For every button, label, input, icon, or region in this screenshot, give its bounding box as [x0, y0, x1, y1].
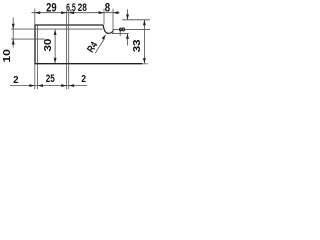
leader arrowhead — [102, 34, 107, 40]
arrow up — [54, 30, 57, 35]
arrow down to step top — [126, 14, 129, 19]
right shelf line — [114, 28, 150, 30]
R4 groove (fillet U at top right) — [103, 25, 113, 33]
groove bottom extension line — [112, 32, 129, 34]
dim line — [12, 18, 14, 48]
ext rib right — [68, 64, 70, 89]
left wall inner line — [37, 26, 39, 64]
arrow down to top line — [12, 24, 15, 29]
arrow up — [143, 20, 146, 25]
small vertical step line — [119, 29, 121, 36]
arrow down — [143, 58, 146, 63]
left wall outer edge — [34, 25, 36, 65]
arrow 6,5 right (outside) — [69, 11, 74, 14]
rib left line — [66, 26, 68, 64]
svg-text:30: 30 — [43, 38, 54, 51]
ext fillet left — [103, 9, 105, 25]
svg-text:8: 8 — [117, 27, 127, 32]
lower shaft — [127, 34, 129, 46]
svg-text:2: 2 — [13, 75, 19, 86]
ext line left wall — [34, 9, 36, 25]
ext rib up left — [66, 11, 68, 25]
top edge — [35, 24, 104, 26]
arrow 25 right — [61, 84, 66, 87]
bottom dim line — [10, 85, 87, 87]
arrow up to bottom line — [12, 39, 15, 44]
short left horizontal reference line — [11, 38, 45, 40]
arrow 25 left — [38, 84, 43, 87]
right step top line — [122, 19, 150, 21]
arrow 2 right (outside) — [69, 84, 74, 87]
dim line — [143, 20, 145, 64]
svg-text:29: 29 — [46, 3, 57, 15]
svg-text:8: 8 — [105, 1, 111, 15]
rib right line — [68, 26, 70, 64]
ext rib left — [66, 64, 68, 89]
leader line — [95, 39, 104, 54]
long horizontal reference line — [11, 28, 103, 30]
dim line — [54, 30, 56, 64]
arrow down — [54, 58, 57, 63]
ext wall inner — [37, 64, 39, 89]
arrow 2 left (outside) — [29, 84, 34, 87]
svg-text:6,5: 6,5 — [66, 2, 76, 14]
svg-text:25: 25 — [46, 73, 55, 85]
svg-text:28: 28 — [78, 2, 87, 14]
bottom edge — [34, 63, 142, 65]
ext wall outer — [34, 64, 36, 89]
arrow 29 right — [61, 11, 66, 14]
ext shelf right — [112, 9, 114, 34]
arrow 29 left — [35, 11, 40, 14]
arrow 8 right (outside) — [113, 11, 118, 14]
arrow up to groove bottom line — [126, 34, 129, 39]
top dim line — [32, 12, 120, 14]
svg-text:10: 10 — [1, 49, 13, 63]
ext rib up right — [68, 11, 70, 25]
svg-text:33: 33 — [131, 39, 143, 52]
arrow 28 right — [99, 11, 104, 14]
svg-text:2: 2 — [81, 73, 86, 85]
upper shaft — [127, 9, 129, 19]
